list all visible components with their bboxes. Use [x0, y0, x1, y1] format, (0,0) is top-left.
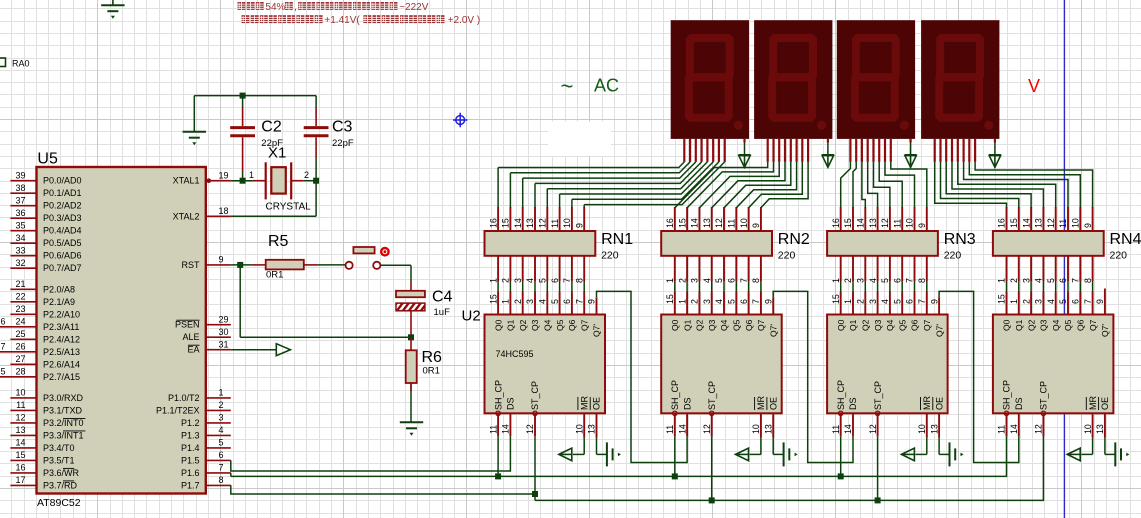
svg-text:9: 9 — [763, 299, 773, 304]
svg-text:28: 28 — [15, 367, 25, 377]
svg-text:R6: R6 — [422, 349, 443, 366]
svg-text:16: 16 — [15, 463, 25, 473]
svg-text:SH_CP: SH_CP — [836, 380, 846, 410]
svg-text:15: 15 — [665, 294, 675, 304]
svg-text:Q4: Q4 — [719, 319, 729, 331]
svg-text:P3.6/WR: P3.6/WR — [43, 468, 80, 478]
svg-text:9: 9 — [574, 223, 584, 228]
svg-text:1: 1 — [997, 278, 1007, 283]
svg-text:21: 21 — [15, 279, 25, 289]
svg-text:P1.6: P1.6 — [181, 468, 200, 478]
svg-text:7: 7 — [1071, 278, 1081, 283]
svg-text:15: 15 — [831, 294, 841, 304]
svg-text:74HC595: 74HC595 — [496, 349, 534, 359]
svg-text:P3.2/INT0: P3.2/INT0 — [43, 418, 84, 428]
svg-text:8: 8 — [1083, 278, 1093, 283]
svg-text:10: 10 — [905, 218, 915, 228]
svg-text:P0.0/AD0: P0.0/AD0 — [43, 176, 82, 186]
svg-text:13: 13 — [1095, 424, 1105, 434]
svg-text:OE: OE — [768, 397, 778, 410]
svg-text:10: 10 — [751, 424, 761, 434]
svg-text:15: 15 — [997, 294, 1007, 304]
svg-text:2: 2 — [501, 278, 511, 283]
svg-text:6: 6 — [892, 278, 902, 283]
svg-text:18: 18 — [219, 206, 229, 216]
svg-text:1: 1 — [665, 278, 675, 283]
svg-text:2: 2 — [1009, 278, 1019, 283]
svg-text:1: 1 — [249, 170, 254, 180]
svg-text:X1: X1 — [268, 145, 286, 162]
svg-text:8: 8 — [219, 475, 224, 485]
svg-text:Q7: Q7 — [1088, 319, 1098, 331]
svg-text:26: 26 — [15, 342, 25, 352]
svg-text:15: 15 — [501, 218, 511, 228]
svg-text:13: 13 — [525, 218, 535, 228]
svg-text:22pF: 22pF — [332, 138, 354, 149]
svg-text:10: 10 — [739, 218, 749, 228]
svg-text:30: 30 — [219, 327, 229, 337]
svg-text:1: 1 — [843, 299, 853, 304]
svg-text:16: 16 — [997, 218, 1007, 228]
svg-text:6: 6 — [739, 299, 749, 304]
svg-text:10: 10 — [917, 424, 927, 434]
svg-text:15: 15 — [15, 450, 25, 460]
svg-text:6: 6 — [1058, 278, 1068, 283]
svg-text:P0.1/AD1: P0.1/AD1 — [43, 188, 82, 198]
svg-text:6: 6 — [727, 278, 737, 283]
svg-text:6: 6 — [562, 299, 572, 304]
svg-text:P2.3/A11: P2.3/A11 — [43, 322, 79, 332]
svg-text:ST_CP: ST_CP — [1039, 381, 1049, 410]
svg-text:10: 10 — [1083, 424, 1093, 434]
svg-text:3: 3 — [690, 278, 700, 283]
svg-text:15: 15 — [1009, 218, 1019, 228]
svg-text:DS: DS — [1014, 397, 1024, 410]
svg-text:5: 5 — [727, 299, 737, 304]
svg-text:DS: DS — [506, 397, 516, 410]
svg-text:1: 1 — [1009, 299, 1019, 304]
svg-text:Q1: Q1 — [506, 319, 516, 331]
svg-text:P1.2: P1.2 — [181, 418, 200, 428]
svg-text:5: 5 — [1058, 299, 1068, 304]
svg-text:14: 14 — [843, 424, 853, 434]
svg-text:Q7: Q7 — [756, 319, 766, 331]
svg-text:P2.2/A10: P2.2/A10 — [43, 309, 80, 319]
svg-text:RN1: RN1 — [601, 231, 633, 248]
svg-text:2: 2 — [1021, 299, 1031, 304]
svg-text:DS: DS — [848, 397, 858, 410]
svg-text:14: 14 — [1021, 218, 1031, 228]
svg-text:~: ~ — [561, 74, 574, 99]
svg-text:XTAL1: XTAL1 — [173, 176, 200, 186]
svg-text:5: 5 — [1046, 278, 1056, 283]
svg-text:12: 12 — [880, 218, 890, 228]
svg-text:U2: U2 — [462, 308, 481, 325]
svg-text:SH_CP: SH_CP — [1002, 380, 1012, 410]
svg-text:RN3: RN3 — [944, 231, 976, 248]
svg-text:10: 10 — [1071, 218, 1081, 228]
svg-text:P3.7/RD: P3.7/RD — [43, 480, 78, 490]
svg-text:4: 4 — [1034, 278, 1044, 283]
svg-text:11: 11 — [1058, 219, 1068, 228]
svg-text:Q6: Q6 — [1076, 319, 1086, 331]
svg-text:Q2: Q2 — [1026, 319, 1036, 331]
svg-text:2: 2 — [856, 299, 866, 304]
svg-text:RN4: RN4 — [1110, 231, 1141, 248]
svg-text:5: 5 — [1, 367, 6, 377]
svg-text:PSEN: PSEN — [175, 320, 200, 330]
svg-text:12: 12 — [868, 424, 878, 434]
svg-text:220: 220 — [778, 250, 796, 262]
svg-text:11: 11 — [997, 425, 1007, 434]
svg-text:9: 9 — [929, 299, 939, 304]
svg-text:32: 32 — [15, 258, 25, 268]
svg-text:7: 7 — [574, 299, 584, 304]
svg-text:3: 3 — [702, 299, 712, 304]
svg-text:R5: R5 — [268, 233, 289, 250]
svg-text:12: 12 — [525, 424, 535, 434]
svg-text:13: 13 — [868, 218, 878, 228]
svg-text:MR: MR — [922, 396, 932, 410]
svg-text:~222V: ~222V — [399, 2, 429, 13]
svg-text:15: 15 — [488, 294, 498, 304]
svg-text:3: 3 — [219, 413, 224, 423]
svg-text:Q0: Q0 — [1002, 319, 1012, 331]
svg-text:7: 7 — [905, 278, 915, 283]
svg-text:Q3: Q3 — [530, 319, 540, 331]
svg-text:13: 13 — [587, 424, 597, 434]
svg-text:34: 34 — [15, 233, 25, 243]
svg-text:14: 14 — [15, 438, 25, 448]
svg-text:9: 9 — [917, 223, 927, 228]
svg-text:11: 11 — [16, 400, 25, 410]
svg-text:0R1: 0R1 — [266, 270, 283, 281]
svg-text:37: 37 — [15, 196, 25, 206]
svg-text:Q3: Q3 — [873, 319, 883, 331]
svg-text:1: 1 — [501, 299, 511, 304]
svg-text:V: V — [1028, 76, 1040, 96]
svg-text:DS: DS — [682, 397, 692, 410]
svg-text:1: 1 — [219, 388, 224, 398]
svg-text:Q4: Q4 — [1051, 319, 1061, 331]
svg-text:14: 14 — [690, 218, 700, 228]
svg-text:MR: MR — [579, 396, 589, 410]
svg-text:Q0: Q0 — [836, 319, 846, 331]
svg-text:14: 14 — [856, 218, 866, 228]
svg-text:P0.5/AD5: P0.5/AD5 — [43, 238, 82, 248]
svg-text:OE: OE — [1100, 397, 1110, 410]
svg-text:2: 2 — [513, 299, 523, 304]
svg-text:7: 7 — [751, 299, 761, 304]
svg-text:3: 3 — [525, 299, 535, 304]
svg-text:Q2: Q2 — [695, 319, 705, 331]
svg-text:+1.41V(: +1.41V( — [324, 15, 360, 26]
svg-text:14: 14 — [1009, 424, 1019, 434]
svg-text:Q6: Q6 — [744, 319, 754, 331]
svg-text:+2.0V ): +2.0V ) — [448, 15, 481, 26]
svg-text:,: , — [294, 2, 297, 13]
svg-text:Q7: Q7 — [922, 319, 932, 331]
svg-text:3: 3 — [868, 299, 878, 304]
svg-text:23: 23 — [15, 304, 25, 314]
svg-text:Q7: Q7 — [579, 319, 589, 331]
svg-text:7: 7 — [1, 342, 6, 352]
svg-text:P2.6/A14: P2.6/A14 — [43, 359, 80, 369]
svg-text:RN2: RN2 — [778, 231, 810, 248]
svg-text:9: 9 — [219, 255, 224, 265]
svg-text:P2.5/A13: P2.5/A13 — [43, 347, 80, 357]
svg-text:ALE: ALE — [182, 332, 199, 342]
svg-text:14: 14 — [501, 424, 511, 434]
svg-text:AC: AC — [594, 76, 619, 96]
svg-text:1: 1 — [677, 299, 687, 304]
svg-text:12: 12 — [15, 413, 25, 423]
svg-text:Q3: Q3 — [1039, 319, 1049, 331]
svg-text:54%: 54% — [265, 2, 285, 13]
svg-text:RA0: RA0 — [12, 59, 30, 69]
svg-text:XTAL2: XTAL2 — [173, 211, 200, 221]
svg-text:13: 13 — [763, 424, 773, 434]
svg-text:14: 14 — [513, 218, 523, 228]
svg-text:29: 29 — [219, 315, 229, 325]
svg-text:11: 11 — [831, 425, 841, 434]
svg-text:5: 5 — [880, 278, 890, 283]
svg-text:3: 3 — [856, 278, 866, 283]
svg-text:P3.3/INT1: P3.3/INT1 — [43, 430, 84, 440]
svg-text:P2.4/A12: P2.4/A12 — [43, 334, 80, 344]
svg-text:36: 36 — [15, 208, 25, 218]
svg-text:P0.2/AD2: P0.2/AD2 — [43, 201, 82, 211]
svg-text:14: 14 — [677, 424, 687, 434]
svg-text:P1.0/T2: P1.0/T2 — [168, 393, 200, 403]
svg-text:P0.3/AD3: P0.3/AD3 — [43, 213, 82, 223]
svg-text:6: 6 — [905, 299, 915, 304]
svg-text:OE: OE — [934, 397, 944, 410]
svg-text:9: 9 — [1095, 299, 1105, 304]
svg-text:6: 6 — [219, 450, 224, 460]
svg-text:RST: RST — [182, 260, 201, 270]
svg-text:P1.7: P1.7 — [181, 480, 200, 490]
svg-text:15: 15 — [843, 218, 853, 228]
svg-text:3: 3 — [1021, 278, 1031, 283]
svg-text:5: 5 — [892, 299, 902, 304]
svg-text:P0.4/AD4: P0.4/AD4 — [43, 226, 82, 236]
svg-text:Q5: Q5 — [555, 319, 565, 331]
svg-text:Q7': Q7' — [592, 324, 602, 337]
svg-text:12: 12 — [1034, 424, 1044, 434]
svg-text:16: 16 — [665, 218, 675, 228]
svg-text:6: 6 — [1071, 299, 1081, 304]
svg-text:16: 16 — [488, 218, 498, 228]
svg-text:P2.0/A8: P2.0/A8 — [43, 284, 75, 294]
svg-text:12: 12 — [714, 218, 724, 228]
svg-text:Q2: Q2 — [518, 319, 528, 331]
svg-text:11: 11 — [488, 425, 498, 434]
svg-text:P3.0/RXD: P3.0/RXD — [43, 393, 84, 403]
svg-text:P3.4/T0: P3.4/T0 — [43, 443, 75, 453]
svg-text:0R1: 0R1 — [423, 366, 440, 377]
svg-text:3: 3 — [513, 278, 523, 283]
svg-text:9: 9 — [751, 223, 761, 228]
svg-text:CRYSTAL: CRYSTAL — [266, 202, 312, 213]
svg-text:8: 8 — [574, 278, 584, 283]
svg-text:4: 4 — [880, 299, 890, 304]
svg-text:9: 9 — [1083, 223, 1093, 228]
svg-text:220: 220 — [1110, 250, 1128, 262]
svg-text:P2.7/A15: P2.7/A15 — [43, 372, 80, 382]
svg-text:Q7': Q7' — [1100, 324, 1110, 337]
svg-text:2: 2 — [219, 400, 224, 410]
svg-text:Q1: Q1 — [1014, 319, 1024, 331]
svg-text:C3: C3 — [332, 119, 353, 136]
svg-text:Q5: Q5 — [732, 319, 742, 331]
svg-text:ST_CP: ST_CP — [707, 381, 717, 410]
svg-text:12: 12 — [1046, 218, 1056, 228]
svg-text:Q0: Q0 — [670, 319, 680, 331]
svg-text:4: 4 — [868, 278, 878, 283]
svg-text:ST_CP: ST_CP — [873, 381, 883, 410]
svg-text:5: 5 — [714, 278, 724, 283]
svg-text:6: 6 — [550, 278, 560, 283]
svg-text:31: 31 — [219, 340, 229, 350]
svg-text:17: 17 — [15, 475, 25, 485]
svg-text:4: 4 — [702, 278, 712, 283]
svg-text:P1.3: P1.3 — [181, 430, 200, 440]
svg-text:7: 7 — [917, 299, 927, 304]
svg-text:4: 4 — [714, 299, 724, 304]
svg-text:P2.1/A9: P2.1/A9 — [43, 297, 75, 307]
svg-text:C4: C4 — [432, 289, 453, 306]
svg-text:SH_CP: SH_CP — [493, 380, 503, 410]
svg-text:10: 10 — [15, 388, 25, 398]
svg-text:2: 2 — [843, 278, 853, 283]
svg-text:10: 10 — [562, 218, 572, 228]
svg-text:Q6: Q6 — [910, 319, 920, 331]
svg-text:Q4: Q4 — [543, 319, 553, 331]
svg-text:P1.4: P1.4 — [181, 443, 200, 453]
svg-text:8: 8 — [917, 278, 927, 283]
svg-text:10: 10 — [574, 424, 584, 434]
svg-text:16: 16 — [831, 218, 841, 228]
svg-text:35: 35 — [15, 221, 25, 231]
svg-text:8: 8 — [751, 278, 761, 283]
svg-text:220: 220 — [944, 250, 962, 262]
svg-text:MR: MR — [756, 396, 766, 410]
svg-text:Q5: Q5 — [1063, 319, 1073, 331]
svg-text:OE: OE — [592, 397, 602, 410]
svg-text:P0.7/AD7: P0.7/AD7 — [43, 263, 82, 273]
svg-text:11: 11 — [550, 219, 560, 228]
svg-text:12: 12 — [702, 424, 712, 434]
svg-text:7: 7 — [739, 278, 749, 283]
svg-text:7: 7 — [219, 463, 224, 473]
svg-text:15: 15 — [677, 218, 687, 228]
svg-text:39: 39 — [15, 171, 25, 181]
svg-text:19: 19 — [219, 171, 229, 181]
svg-text:P1.5: P1.5 — [181, 455, 200, 465]
svg-text:5: 5 — [550, 299, 560, 304]
svg-text:7: 7 — [1083, 299, 1093, 304]
svg-text:SH_CP: SH_CP — [670, 380, 680, 410]
svg-text:13: 13 — [15, 425, 25, 435]
svg-text:24: 24 — [15, 317, 25, 327]
svg-text:6: 6 — [1, 317, 6, 327]
svg-text:Q2: Q2 — [861, 319, 871, 331]
svg-text:25: 25 — [15, 329, 25, 339]
svg-text:Q0: Q0 — [493, 319, 503, 331]
svg-text:27: 27 — [15, 354, 25, 364]
svg-text:Q1: Q1 — [848, 319, 858, 331]
svg-text:5: 5 — [538, 278, 548, 283]
svg-text:Q4: Q4 — [885, 319, 895, 331]
svg-text:P1.1/T2EX: P1.1/T2EX — [156, 405, 200, 415]
svg-text:2: 2 — [304, 170, 309, 180]
svg-text:Q6: Q6 — [567, 319, 577, 331]
svg-text:Q7': Q7' — [934, 324, 944, 337]
svg-text:P0.6/AD6: P0.6/AD6 — [43, 251, 82, 261]
svg-text:2: 2 — [690, 299, 700, 304]
svg-text:13: 13 — [702, 218, 712, 228]
svg-text:C2: C2 — [261, 119, 282, 136]
svg-text:13: 13 — [929, 424, 939, 434]
svg-text:1: 1 — [831, 278, 841, 283]
svg-text:38: 38 — [15, 183, 25, 193]
svg-text:5: 5 — [219, 438, 224, 448]
svg-text:9: 9 — [587, 299, 597, 304]
svg-text:4: 4 — [538, 299, 548, 304]
svg-text:ST_CP: ST_CP — [530, 381, 540, 410]
svg-text:MR: MR — [1088, 396, 1098, 410]
svg-text:AT89C52: AT89C52 — [37, 497, 81, 509]
svg-text:11: 11 — [892, 219, 902, 228]
svg-text:U5: U5 — [37, 151, 58, 168]
svg-text:13: 13 — [1034, 218, 1044, 228]
svg-text:12: 12 — [538, 218, 548, 228]
svg-text:4: 4 — [219, 425, 224, 435]
svg-text:4: 4 — [525, 278, 535, 283]
svg-text:1: 1 — [488, 278, 498, 283]
svg-text:33: 33 — [15, 246, 25, 256]
svg-text:Q5: Q5 — [897, 319, 907, 331]
svg-text:220: 220 — [601, 250, 619, 262]
svg-text:P3.5/T1: P3.5/T1 — [43, 455, 75, 465]
svg-text:22: 22 — [15, 292, 25, 302]
svg-text:1uF: 1uF — [434, 307, 451, 318]
svg-text:EA: EA — [187, 345, 199, 355]
svg-text:2: 2 — [677, 278, 687, 283]
svg-text:Q3: Q3 — [707, 319, 717, 331]
svg-text:P3.1/TXD: P3.1/TXD — [43, 405, 83, 415]
svg-text:Q7': Q7' — [768, 324, 778, 337]
svg-text:11: 11 — [665, 425, 675, 434]
svg-text:3: 3 — [1034, 299, 1044, 304]
svg-text:4: 4 — [1046, 299, 1056, 304]
svg-text:Q1: Q1 — [682, 319, 692, 331]
svg-text:11: 11 — [727, 219, 737, 228]
svg-text:7: 7 — [562, 278, 572, 283]
